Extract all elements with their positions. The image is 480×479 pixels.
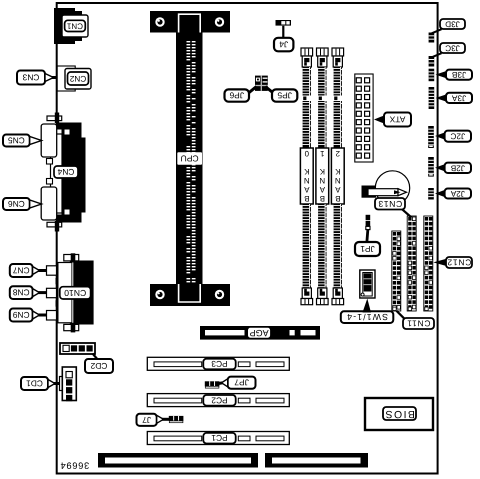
svg-text:K: K <box>319 167 325 176</box>
svg-text:CN2: CN2 <box>69 74 86 83</box>
svg-text:A: A <box>319 185 325 194</box>
svg-text:J2A: J2A <box>450 189 465 198</box>
svg-text:CD1: CD1 <box>26 379 43 389</box>
svg-text:CPU: CPU <box>181 154 199 164</box>
svg-text:N: N <box>335 176 341 185</box>
svg-text:JP6: JP6 <box>229 91 244 101</box>
svg-text:PC1: PC1 <box>211 433 228 443</box>
svg-text:CN12: CN12 <box>447 258 472 268</box>
svg-text:CN6: CN6 <box>8 199 25 209</box>
svg-text:CN8: CN8 <box>12 288 29 298</box>
svg-text:K: K <box>334 167 340 176</box>
svg-text:CN1: CN1 <box>66 21 83 30</box>
svg-text:2: 2 <box>336 149 340 158</box>
svg-text:0: 0 <box>304 149 309 158</box>
svg-text:N: N <box>304 176 310 185</box>
svg-text:J3C: J3C <box>445 44 460 53</box>
svg-text:J4: J4 <box>279 40 288 50</box>
svg-text:J7: J7 <box>142 415 151 425</box>
svg-text:N: N <box>319 176 325 185</box>
svg-text:CD2: CD2 <box>90 361 107 371</box>
svg-text:36694: 36694 <box>60 461 89 471</box>
svg-text:BIOS: BIOS <box>384 408 415 419</box>
svg-text:J3B: J3B <box>451 70 466 79</box>
svg-text:CN9: CN9 <box>12 310 29 320</box>
svg-text:J3D: J3D <box>445 20 460 29</box>
svg-text:CN7: CN7 <box>12 266 29 276</box>
svg-text:PC2: PC2 <box>211 395 228 405</box>
svg-text:A: A <box>303 185 309 194</box>
svg-text:SW1/1-4: SW1/1-4 <box>346 312 388 322</box>
svg-text:CN13: CN13 <box>378 199 402 209</box>
svg-text:JP7: JP7 <box>234 378 249 388</box>
svg-text:CN5: CN5 <box>8 136 25 146</box>
svg-text:CN3: CN3 <box>22 73 39 83</box>
svg-text:1: 1 <box>320 149 324 158</box>
svg-text:K: K <box>303 167 309 176</box>
svg-text:JP5: JP5 <box>277 91 292 101</box>
svg-text:B: B <box>304 194 309 203</box>
svg-text:PC3: PC3 <box>211 359 228 369</box>
svg-text:CN11: CN11 <box>407 319 431 329</box>
svg-text:CN10: CN10 <box>64 288 86 298</box>
svg-text:B: B <box>320 194 325 203</box>
svg-text:AGP: AGP <box>250 328 269 338</box>
svg-text:B: B <box>335 194 340 203</box>
svg-text:CN4: CN4 <box>57 167 74 177</box>
svg-text:J2C: J2C <box>450 132 465 141</box>
svg-text:A: A <box>334 185 340 194</box>
svg-text:J2B: J2B <box>450 163 465 172</box>
svg-text:JP1: JP1 <box>360 244 375 254</box>
svg-text:ATX: ATX <box>389 115 405 125</box>
svg-text:J3A: J3A <box>451 93 466 102</box>
